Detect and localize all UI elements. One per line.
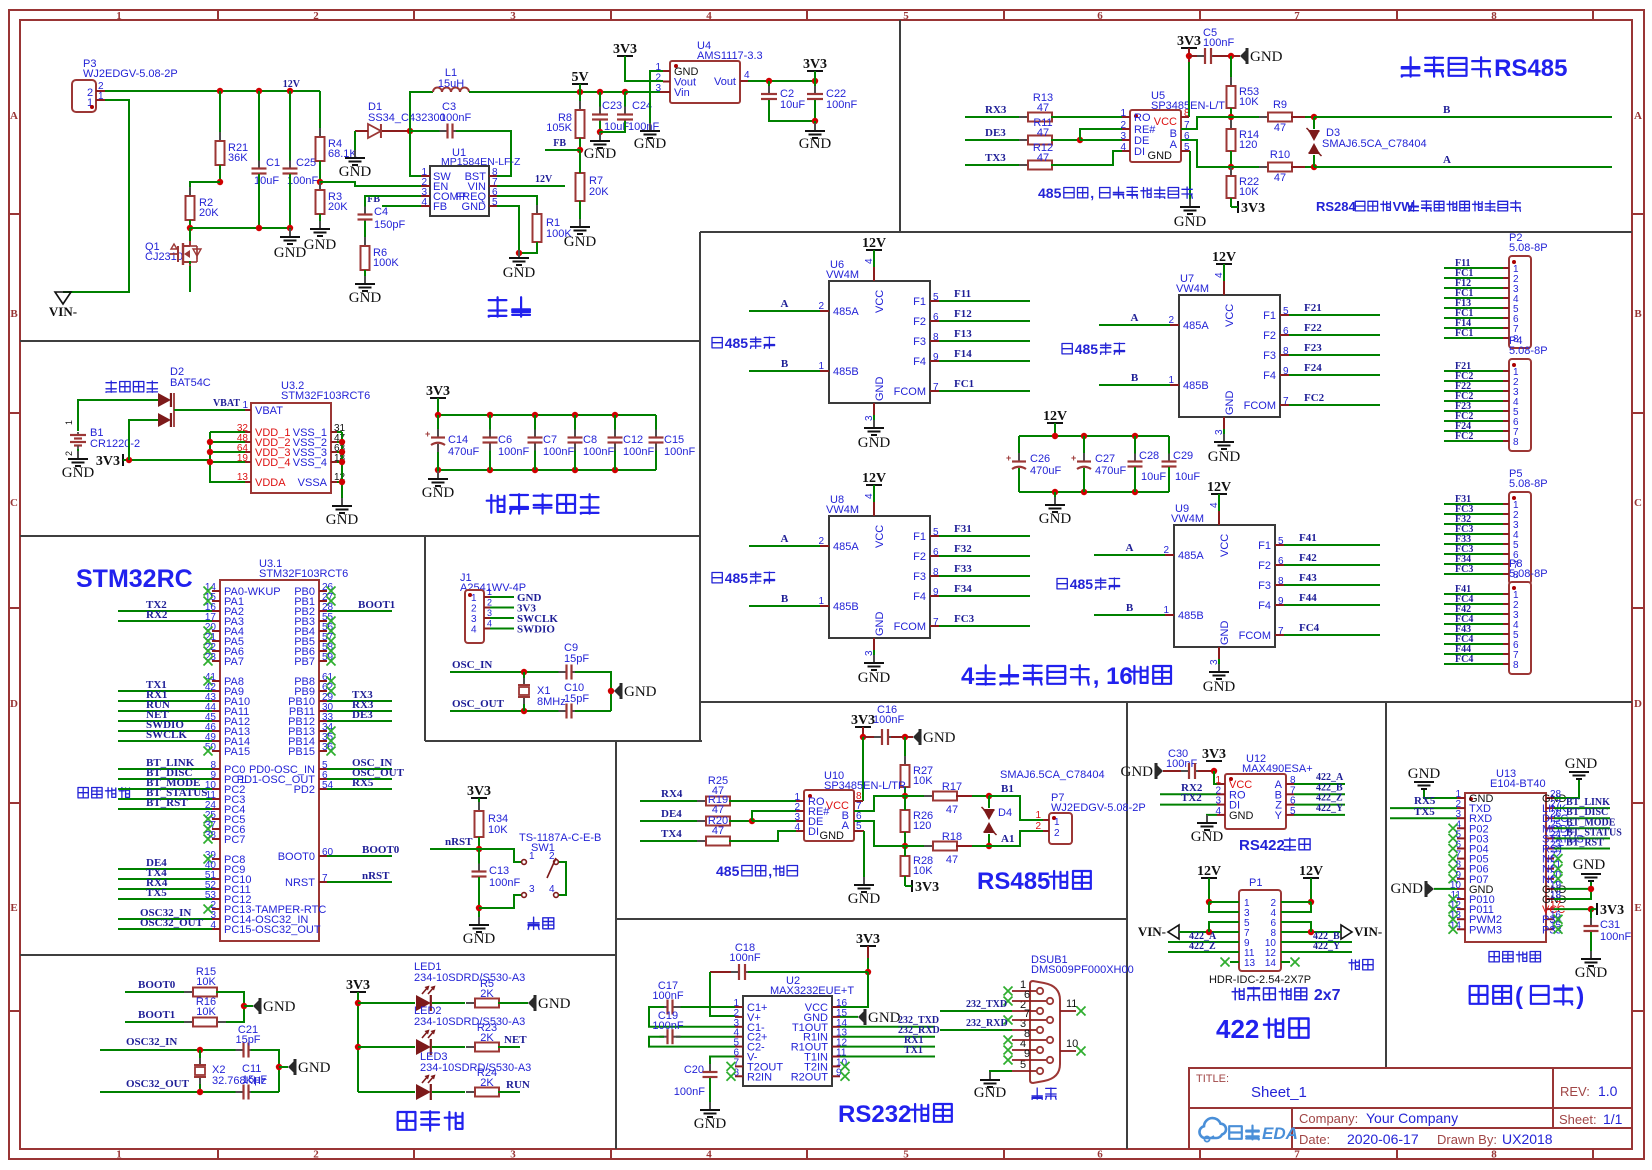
svg-text:OSC_IN: OSC_IN xyxy=(452,659,492,671)
svg-text:232_RXD: 232_RXD xyxy=(966,1018,1008,1029)
svg-text:VCC: VCC xyxy=(874,525,886,548)
resistor R11 xyxy=(1019,139,1028,141)
wire 3V3 to U5 VCC xyxy=(1188,62,1190,117)
svg-text:C20: C20 xyxy=(684,1064,704,1076)
wire BT_MODE from U13 xyxy=(1554,827,1610,829)
svg-text:3: 3 xyxy=(510,10,516,22)
wire SW node up to L1 rail xyxy=(410,92,433,131)
svg-text:E104-BT40: E104-BT40 xyxy=(1490,778,1546,790)
svg-text:47: 47 xyxy=(1037,127,1049,139)
ground under R7 xyxy=(579,219,581,227)
wire 12V to P1 pin1 pin3 xyxy=(1209,901,1239,903)
svg-text:FCOM: FCOM xyxy=(1239,630,1271,642)
svg-text:F4: F4 xyxy=(1258,600,1271,612)
section title dianyuan xyxy=(489,297,507,316)
crystal X1 8MHz xyxy=(523,672,525,684)
svg-text:3V3: 3V3 xyxy=(96,454,120,469)
wire U5 A to bus xyxy=(1181,140,1231,167)
resistor R26 xyxy=(904,801,906,810)
section title zhenxian mokuai RS485 xyxy=(1402,57,1420,76)
svg-text:SMAJ6.5CA_C78404: SMAJ6.5CA_C78404 xyxy=(1000,769,1105,781)
resistor R22 xyxy=(1230,167,1232,176)
svg-text:4: 4 xyxy=(744,70,750,81)
resistor R1 xyxy=(497,196,537,214)
svg-text:12V: 12V xyxy=(1043,409,1067,424)
svg-text:C12: C12 xyxy=(623,434,643,446)
svg-text:F34: F34 xyxy=(954,583,972,595)
svg-text:1: 1 xyxy=(529,851,535,862)
svg-text:F44: F44 xyxy=(1299,592,1317,604)
svg-text:3: 3 xyxy=(510,1149,516,1161)
wire NET to U3.1 xyxy=(118,720,212,722)
resistor R7 xyxy=(579,164,581,173)
wire RX2 to U3.1 xyxy=(118,620,212,622)
svg-text:234-10SDRD/S530-A3: 234-10SDRD/S530-A3 xyxy=(414,1016,525,1028)
svg-text:1: 1 xyxy=(98,91,104,102)
svg-text:MAX490ESA+: MAX490ESA+ xyxy=(1242,763,1313,775)
ground under R6 xyxy=(364,276,366,284)
IC U9 VW4M xyxy=(1174,525,1275,647)
svg-text:36K: 36K xyxy=(228,152,248,164)
svg-text:PB15: PB15 xyxy=(288,746,315,758)
svg-text:A: A xyxy=(1126,542,1134,554)
svg-text:GND: GND xyxy=(1408,766,1441,782)
svg-text:nRST: nRST xyxy=(445,836,473,848)
wire VDD bus xyxy=(210,432,245,482)
svg-text:F22: F22 xyxy=(1304,322,1322,334)
svg-text:VCC: VCC xyxy=(1154,116,1177,128)
capacitor C14 470uF xyxy=(437,415,439,436)
svg-text:VSSA: VSSA xyxy=(298,477,328,489)
wire BT_LINK to U3.1 xyxy=(118,768,212,770)
svg-text:5V: 5V xyxy=(571,70,588,85)
svg-text:F14: F14 xyxy=(954,348,972,360)
svg-text:+: + xyxy=(425,429,430,439)
wire DE3 from U3.1 xyxy=(327,720,392,722)
wire TX4 to U3.1 xyxy=(118,878,212,880)
svg-text:DE3: DE3 xyxy=(352,709,373,721)
svg-text:2: 2 xyxy=(549,851,555,862)
svg-text:GND: GND xyxy=(923,730,956,746)
resistor R17 xyxy=(905,795,934,797)
svg-text:2: 2 xyxy=(487,598,492,608)
svg-text:R10: R10 xyxy=(1270,149,1290,161)
label jilian xyxy=(1349,960,1359,970)
svg-text:REV:: REV: xyxy=(1560,1084,1590,1099)
IC U10 SP3485EN xyxy=(804,790,854,841)
wire nRST from U3.1 xyxy=(327,881,392,883)
wire 232_TXD to DSUB xyxy=(940,1010,1012,1012)
svg-text:C31: C31 xyxy=(1600,919,1620,931)
svg-text:47: 47 xyxy=(1037,102,1049,114)
svg-text:GND: GND xyxy=(1573,857,1606,873)
IC U7 VW4M xyxy=(1179,295,1280,417)
IC U3.1 STM32F103RCT6 xyxy=(220,580,319,941)
svg-text:2: 2 xyxy=(313,10,319,22)
svg-text:12V: 12V xyxy=(283,79,301,90)
svg-text:VW4M: VW4M xyxy=(826,269,859,281)
svg-text:4: 4 xyxy=(706,10,712,22)
wire D2 cathode to VBAT xyxy=(174,409,245,411)
svg-text:8: 8 xyxy=(1513,660,1519,671)
wire cap bank top rail xyxy=(438,414,656,416)
resistor R34 xyxy=(478,802,480,811)
svg-text:Vin: Vin xyxy=(674,87,690,99)
wire VIN- from P3 pin1 xyxy=(63,100,129,292)
svg-text:2: 2 xyxy=(818,301,824,312)
svg-text:GND: GND xyxy=(868,1010,901,1026)
resistor R6 xyxy=(364,237,366,246)
wire TX2 to U3.1 xyxy=(118,610,212,612)
svg-text:C13: C13 xyxy=(489,865,509,877)
wire BT_STATUS from U13 xyxy=(1554,837,1610,839)
svg-text:A: A xyxy=(10,110,18,122)
wire Q1 source to VIN- rail xyxy=(189,264,191,292)
wire DSUB pin11 xyxy=(1060,1010,1076,1012)
svg-text:VIN-: VIN- xyxy=(1138,924,1166,939)
wire RUN to U3.1 xyxy=(118,710,212,712)
svg-text:2: 2 xyxy=(1054,828,1060,839)
svg-text:R9: R9 xyxy=(1273,99,1287,111)
svg-text:TX3: TX3 xyxy=(985,152,1006,164)
svg-text:100nF: 100nF xyxy=(1203,37,1234,49)
svg-text:12V: 12V xyxy=(1197,864,1221,879)
wire RX1 to U3.1 xyxy=(118,700,212,702)
svg-text:14: 14 xyxy=(1265,958,1277,969)
resistor R8 xyxy=(579,92,581,110)
wire 422_B from P1 pin10 xyxy=(1281,941,1352,943)
svg-text:100nF: 100nF xyxy=(826,99,857,111)
svg-text:F2: F2 xyxy=(1258,560,1271,572)
svg-text:B: B xyxy=(1634,308,1642,320)
svg-text:VIN-: VIN- xyxy=(49,304,77,319)
svg-text:C28: C28 xyxy=(1139,450,1159,462)
capacitor C25 xyxy=(289,91,291,168)
wire OSC32_OUT to U3.1 xyxy=(118,928,212,930)
svg-text:F13: F13 xyxy=(954,328,972,340)
svg-text:C15: C15 xyxy=(664,434,684,446)
svg-text:F4: F4 xyxy=(1263,370,1276,382)
power port 3V3 under R28 xyxy=(911,880,913,892)
svg-text:R17: R17 xyxy=(942,781,962,793)
svg-text:BOOT1: BOOT1 xyxy=(358,599,395,611)
svg-text:485: 485 xyxy=(716,863,740,879)
svg-text:105K: 105K xyxy=(546,122,572,134)
svg-text:B: B xyxy=(1443,104,1451,116)
resistor R53 xyxy=(1230,56,1232,86)
ground under cap bank xyxy=(437,470,439,478)
svg-text:C1: C1 xyxy=(266,157,280,169)
wire 3V3 output rail xyxy=(748,80,815,82)
resistor R10 xyxy=(1231,166,1269,168)
svg-text:STM32F103RCT6: STM32F103RCT6 xyxy=(281,390,370,402)
wire BT_RST from U13 xyxy=(1554,848,1610,850)
svg-text:120: 120 xyxy=(1239,139,1257,151)
svg-text:A: A xyxy=(781,533,789,545)
svg-text:B: B xyxy=(781,593,789,605)
svg-text:3V3: 3V3 xyxy=(1600,903,1624,918)
svg-text:1: 1 xyxy=(1035,810,1041,821)
wire J1 GND xyxy=(490,596,514,598)
svg-text:F3: F3 xyxy=(1258,580,1271,592)
svg-text:VSS_4: VSS_4 xyxy=(293,457,327,469)
svg-text:FC1: FC1 xyxy=(1455,328,1473,339)
wire DE3 to RE# and DE xyxy=(1080,129,1122,140)
svg-text:C7: C7 xyxy=(543,434,557,446)
svg-text:C27: C27 xyxy=(1095,453,1115,465)
svg-text:100nF: 100nF xyxy=(1600,931,1631,943)
svg-text:12V: 12V xyxy=(862,471,886,486)
svg-text:F2: F2 xyxy=(913,551,926,563)
svg-text:100nF: 100nF xyxy=(583,446,614,458)
resistor R15 xyxy=(184,991,193,993)
wire 422_Z to P1 pin11 xyxy=(1168,951,1239,953)
svg-text:FC2: FC2 xyxy=(1304,392,1325,404)
svg-text:F11: F11 xyxy=(954,288,971,300)
svg-text:MP1584EN-LF-Z: MP1584EN-LF-Z xyxy=(441,156,521,168)
wire 422_A to P1 pin9 xyxy=(1168,941,1239,943)
svg-text:GND: GND xyxy=(1121,764,1154,780)
svg-text:GND: GND xyxy=(820,830,845,842)
resistor R2 xyxy=(189,187,191,196)
wire 422_A from U12 xyxy=(1294,783,1345,785)
wire U10 B pin xyxy=(854,796,905,811)
svg-text:SP3485EN-L/TR: SP3485EN-L/TR xyxy=(1151,100,1233,112)
label jie485 chip U7 xyxy=(1062,344,1072,354)
svg-text:120: 120 xyxy=(913,820,931,832)
svg-text:6: 6 xyxy=(1097,10,1103,22)
svg-text:20K: 20K xyxy=(589,186,609,198)
wire cap bank bottom rail xyxy=(438,469,656,471)
svg-text:,: , xyxy=(768,863,772,879)
svg-text:OSC32_OUT: OSC32_OUT xyxy=(126,1078,190,1090)
ground flag at C5 xyxy=(1240,49,1247,63)
wire 422_Z from U12 xyxy=(1294,804,1345,806)
svg-text:3V3: 3V3 xyxy=(613,42,637,57)
ground under C31 xyxy=(1590,951,1592,959)
svg-text:PB7: PB7 xyxy=(294,656,315,668)
svg-text:12V: 12V xyxy=(862,236,886,251)
svg-text:100nF: 100nF xyxy=(873,714,904,726)
svg-text:2: 2 xyxy=(1035,821,1041,832)
capacitor C11 xyxy=(236,1091,244,1093)
svg-text:2: 2 xyxy=(1163,545,1169,556)
svg-text:nRST: nRST xyxy=(362,870,390,882)
svg-text:PWM3: PWM3 xyxy=(1469,924,1502,936)
svg-text:DMS009PF000XH00: DMS009PF000XH00 xyxy=(1031,964,1134,976)
svg-text:TX4: TX4 xyxy=(661,828,682,840)
capacitor C22 xyxy=(814,81,816,93)
svg-text:D: D xyxy=(10,698,18,710)
svg-text:A: A xyxy=(1634,110,1642,122)
svg-text:470uF: 470uF xyxy=(1095,465,1126,477)
svg-text:485: 485 xyxy=(1070,576,1094,592)
svg-text:1: 1 xyxy=(1168,375,1174,386)
svg-text:UX2018: UX2018 xyxy=(1502,1131,1553,1147)
wire VIN- to P1 pin8 pin6 xyxy=(1281,931,1341,933)
ground under C25 xyxy=(289,228,291,236)
wire OSC_IN from U3.1 xyxy=(327,768,392,770)
capacitor C1 xyxy=(258,91,260,168)
wire RX4 to U3.1 xyxy=(118,888,212,890)
svg-text:C8: C8 xyxy=(583,434,597,446)
wire B1 to D2 anode xyxy=(78,400,158,431)
capacitor C28 10uF xyxy=(1134,436,1136,461)
svg-text:2: 2 xyxy=(313,1149,319,1161)
svg-text:PC7: PC7 xyxy=(224,834,245,846)
svg-text:Sheet:: Sheet: xyxy=(1559,1112,1597,1127)
svg-text:C4: C4 xyxy=(374,206,388,218)
svg-text:1: 1 xyxy=(471,593,477,604)
svg-text:DI: DI xyxy=(808,826,819,838)
svg-text:WJ2EDGV-5.08-2P: WJ2EDGV-5.08-2P xyxy=(83,68,178,80)
wire SW node down to U1 SW pin xyxy=(410,131,421,176)
svg-text:470uF: 470uF xyxy=(1030,465,1061,477)
wire 12V to R4 xyxy=(319,91,321,137)
svg-text:4: 4 xyxy=(421,197,427,208)
section title lanya jingdian xyxy=(1470,986,1488,1004)
wire BT_LINK from U13 xyxy=(1554,807,1610,809)
svg-text:47: 47 xyxy=(946,804,958,816)
wire U13 VCC pin17 to 3V3 xyxy=(1554,908,1591,910)
wire DE4 to RE# DE xyxy=(752,811,796,821)
svg-text:1: 1 xyxy=(487,587,492,597)
svg-text:GND: GND xyxy=(634,136,667,152)
svg-text:OSC_OUT: OSC_OUT xyxy=(452,698,505,710)
svg-text:485B: 485B xyxy=(833,366,859,378)
wire B to U8 xyxy=(749,605,820,607)
svg-text:15pF: 15pF xyxy=(242,1074,267,1086)
svg-text:232_TXD: 232_TXD xyxy=(966,999,1007,1010)
resistor R3 xyxy=(319,182,321,190)
svg-text:CR1220-2: CR1220-2 xyxy=(90,438,140,450)
svg-text:F3: F3 xyxy=(1263,350,1276,362)
resistor R27 xyxy=(904,737,906,765)
svg-text:FC2: FC2 xyxy=(1455,431,1473,442)
svg-text:3V3: 3V3 xyxy=(1241,201,1265,216)
net label nRST xyxy=(430,848,479,850)
svg-text:VDD_4: VDD_4 xyxy=(255,457,290,469)
svg-text:485A: 485A xyxy=(1178,550,1204,562)
svg-text:GND: GND xyxy=(298,1060,331,1076)
svg-text:F24: F24 xyxy=(1304,362,1322,374)
svg-text:GND: GND xyxy=(326,512,359,528)
capacitor C12 xyxy=(614,415,616,437)
IC U8 VW4M xyxy=(829,516,930,638)
net label 12V at VIN xyxy=(497,185,565,187)
svg-text:GND: GND xyxy=(1174,214,1207,230)
ground under U6 xyxy=(873,403,875,415)
wire U13 GND pins 19 18 xyxy=(1554,881,1591,889)
resistor R19 xyxy=(697,820,706,822)
wire D1 anode to ground xyxy=(355,130,368,132)
svg-text:485: 485 xyxy=(1075,341,1099,357)
svg-text:5: 5 xyxy=(903,10,909,22)
svg-text:F1: F1 xyxy=(1263,310,1276,322)
svg-text:BOOT0: BOOT0 xyxy=(278,851,315,863)
resistor R23 xyxy=(466,1046,475,1048)
svg-text:1: 1 xyxy=(1054,817,1060,828)
ground under R3 xyxy=(319,221,321,229)
title block xyxy=(1189,1068,1632,1149)
wire 232_TXD from U2 xyxy=(840,1026,935,1028)
svg-text:F1: F1 xyxy=(1258,540,1271,552)
svg-text:F1: F1 xyxy=(913,296,926,308)
svg-text:10K: 10K xyxy=(913,775,933,787)
svg-text:2x7: 2x7 xyxy=(1309,987,1340,1004)
resistor R28 xyxy=(904,847,906,856)
svg-text:C23: C23 xyxy=(602,100,622,112)
svg-text:OSC32_OUT: OSC32_OUT xyxy=(140,917,204,929)
svg-text:GND: GND xyxy=(349,290,382,306)
svg-text:422_Y: 422_Y xyxy=(1316,803,1344,814)
svg-text:R2OUT: R2OUT xyxy=(791,1071,829,1083)
svg-text:2K: 2K xyxy=(480,1032,494,1044)
svg-text:F3: F3 xyxy=(913,336,926,348)
svg-text:F21: F21 xyxy=(1304,302,1322,314)
wire DSUB pin5 to ground xyxy=(990,1071,1012,1079)
svg-text:47: 47 xyxy=(946,854,958,866)
svg-text:SMAJ6.5CA_C78404: SMAJ6.5CA_C78404 xyxy=(1322,138,1427,150)
svg-text:Drawn By:: Drawn By: xyxy=(1437,1132,1497,1147)
resistor R18 xyxy=(905,845,934,847)
svg-text:RS485: RS485 xyxy=(977,868,1050,895)
wire VIN- to P1 pin7 pin5 xyxy=(1179,931,1239,933)
svg-text:3: 3 xyxy=(487,608,492,618)
svg-text:8: 8 xyxy=(1491,1149,1497,1161)
svg-text:12V: 12V xyxy=(535,174,553,185)
svg-text:B: B xyxy=(781,358,789,370)
svg-text:PA7: PA7 xyxy=(224,656,244,668)
svg-text:STM32RC: STM32RC xyxy=(76,565,193,593)
svg-text:10K: 10K xyxy=(196,976,216,988)
svg-text:100nF: 100nF xyxy=(498,446,529,458)
ground flag led1 xyxy=(528,996,535,1010)
svg-text:SWCLK: SWCLK xyxy=(146,729,187,741)
wire 3V3 to U10 VCC xyxy=(862,737,864,801)
wire net B xyxy=(1314,116,1612,118)
svg-text:TX1: TX1 xyxy=(904,1045,923,1056)
resistor R16 xyxy=(184,1021,193,1023)
wire B1 to ground xyxy=(77,449,79,458)
wire U5 GND to ground xyxy=(1181,150,1190,152)
wire BT_MODE to U3.1 xyxy=(118,788,212,790)
svg-text:C26: C26 xyxy=(1030,453,1050,465)
resistor R21 xyxy=(219,91,221,141)
net label FB xyxy=(545,149,580,151)
wire TX1 from U2 xyxy=(840,1056,935,1058)
svg-text:12V: 12V xyxy=(1207,480,1231,495)
svg-text:OSC32_IN: OSC32_IN xyxy=(126,1036,177,1048)
wire 5V rail xyxy=(469,91,660,93)
svg-text:EDA: EDA xyxy=(1262,1124,1298,1143)
wire BT_RST to U3.1 xyxy=(118,808,212,810)
svg-text:+: + xyxy=(1006,453,1011,463)
svg-text:485A: 485A xyxy=(833,541,859,553)
svg-text:GND: GND xyxy=(1224,391,1236,416)
wire BOOT1 from U3.1 xyxy=(327,610,392,612)
svg-text:VW4M: VW4M xyxy=(1171,513,1204,525)
wire U10 A pin xyxy=(854,821,905,846)
svg-text:Vout: Vout xyxy=(714,76,736,88)
svg-text:3V3: 3V3 xyxy=(915,880,939,895)
svg-text:F4: F4 xyxy=(913,591,926,603)
label jie485 chip U8 xyxy=(712,573,722,583)
svg-text:F41: F41 xyxy=(1299,532,1317,544)
wire BT_DISC to U3.1 xyxy=(118,778,212,780)
svg-text:470uF: 470uF xyxy=(448,446,479,458)
svg-text:F31: F31 xyxy=(954,523,972,535)
